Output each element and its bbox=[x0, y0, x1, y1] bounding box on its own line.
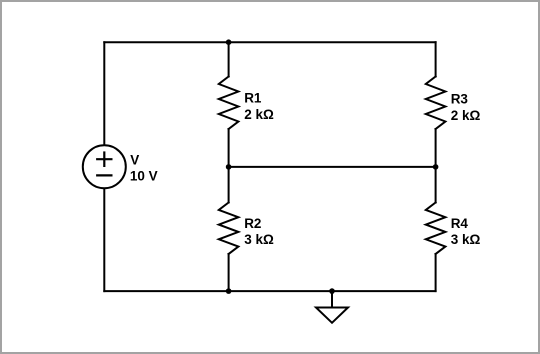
resistor R3 zigzag bbox=[426, 77, 446, 130]
svg-text:10 V: 10 V bbox=[130, 168, 158, 183]
voltage source plus sign bbox=[97, 153, 111, 166]
svg-text:R2: R2 bbox=[244, 216, 261, 231]
ground symbol triangle bbox=[316, 308, 348, 323]
wire bottom horizontal bbox=[104, 290, 435, 292]
wire right branch between R3 and R4 bbox=[435, 129, 437, 203]
wire ground stub bbox=[331, 291, 333, 307]
resistor R4 zigzag bbox=[426, 203, 446, 255]
wire middle horizontal (node between R1/R2 to node between R3/R4) bbox=[229, 166, 436, 168]
node dot ground junction bbox=[329, 288, 335, 294]
svg-text:R4: R4 bbox=[451, 216, 469, 231]
node dot bottom of middle branch bbox=[226, 288, 232, 294]
svg-text:R3: R3 bbox=[451, 92, 469, 107]
resistor R2 zigzag bbox=[219, 203, 239, 255]
node dot right branch at mid wire bbox=[433, 164, 439, 170]
node dot top of middle branch bbox=[226, 39, 232, 45]
wire middle branch between R1 and R2 bbox=[228, 129, 230, 203]
wire right branch upper stub bbox=[435, 42, 437, 76]
wire left vertical lower (source bottom to bottom wire) bbox=[103, 188, 105, 291]
svg-text:V: V bbox=[130, 152, 139, 167]
wire top horizontal bbox=[104, 41, 435, 43]
svg-text:3 kΩ: 3 kΩ bbox=[244, 232, 274, 247]
wire left vertical upper (top wire down to source top) bbox=[103, 42, 105, 145]
wire right branch lower stub bbox=[435, 254, 437, 291]
voltage source V circle bbox=[83, 145, 126, 188]
node dot middle branch at mid wire bbox=[226, 164, 232, 170]
svg-text:2 kΩ: 2 kΩ bbox=[451, 108, 481, 123]
resistor R1 zigzag bbox=[219, 77, 239, 130]
wire middle branch upper stub bbox=[228, 42, 230, 76]
svg-text:3 kΩ: 3 kΩ bbox=[451, 232, 481, 247]
voltage source minus sign bbox=[97, 174, 111, 176]
svg-text:R1: R1 bbox=[244, 91, 262, 106]
wire middle branch lower stub bbox=[228, 254, 230, 291]
svg-text:2 kΩ: 2 kΩ bbox=[244, 107, 274, 122]
